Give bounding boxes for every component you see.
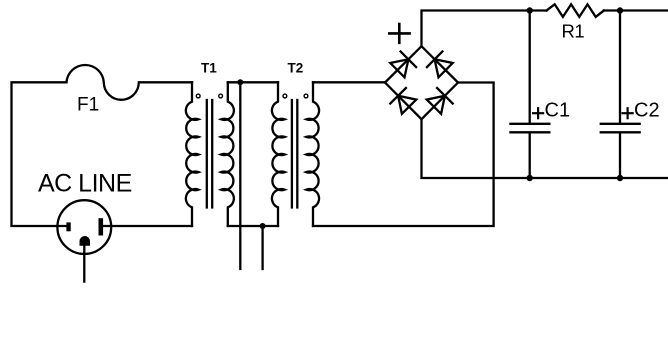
svg-text:T1: T1 bbox=[201, 60, 217, 75]
svg-text:C1: C1 bbox=[545, 100, 571, 122]
svg-text:T2: T2 bbox=[288, 60, 304, 75]
svg-text:R1: R1 bbox=[562, 21, 585, 42]
svg-text:AC LINE: AC LINE bbox=[38, 170, 132, 198]
svg-text:C2: C2 bbox=[634, 100, 660, 122]
svg-text:F1: F1 bbox=[77, 95, 99, 116]
